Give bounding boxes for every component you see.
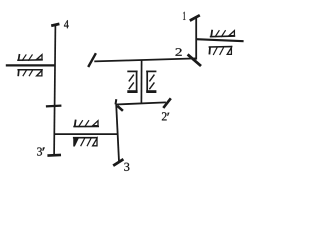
gear 4 tick on left shaft <box>46 104 62 107</box>
bottom-left bearing upper hatched line <box>73 120 99 127</box>
shaft 1 (horizontal input shaft) <box>196 39 243 41</box>
gear 2 mesh tick at right end of shaft 2 <box>188 54 201 66</box>
shaft 3' (horizontal shaft bottom left) <box>55 133 119 135</box>
label 2 <box>175 48 181 55</box>
shaft 4 (left vertical shaft) <box>54 26 55 155</box>
gear tick at left end of shaft 2 <box>88 53 96 67</box>
fixed frame block left of carrier shaft <box>127 71 137 92</box>
left bearing upper hatched line <box>17 54 43 61</box>
fixed frame block right of carrier shaft <box>146 71 156 92</box>
gear 3 tick <box>113 159 123 166</box>
top-right bearing lower hatched line <box>209 47 233 55</box>
tick at carrier bar left end <box>115 99 118 104</box>
mesh tick at carrier corner <box>117 106 123 111</box>
top-right bearing upper hatched line <box>210 30 235 37</box>
label 2' <box>162 112 169 120</box>
planet carrier bottom bar <box>116 102 166 104</box>
label 3 <box>124 163 129 171</box>
gear 4 top cap <box>51 24 59 26</box>
carrier vertical shaft (center) <box>140 60 142 103</box>
gear 1 vertical line <box>195 18 197 60</box>
bottom-left bearing lower hatched line <box>73 138 98 147</box>
label 4 <box>64 20 69 28</box>
gear 3' end bar (foot of left shaft) <box>47 154 61 157</box>
gear 1 top cap tick <box>190 15 200 20</box>
shaft 3 (vertical shaft to gear 3) <box>116 104 119 161</box>
gear 2' tick <box>163 98 171 108</box>
left bearing lower hatched line <box>17 70 42 76</box>
label 3' <box>37 147 45 155</box>
left bearing mid line <box>6 64 55 66</box>
label 1 <box>183 12 185 20</box>
shaft 2 (long horizontal shaft) <box>94 58 196 61</box>
